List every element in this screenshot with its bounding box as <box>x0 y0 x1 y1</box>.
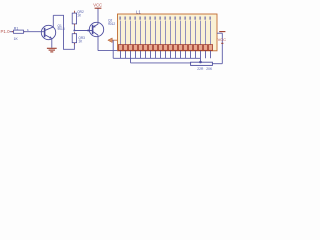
svg-text:VCC: VCC <box>218 37 227 42</box>
svg-text:9012: 9012 <box>108 22 115 26</box>
svg-text:VCC: VCC <box>93 3 102 8</box>
svg-text:P1.0: P1.0 <box>1 29 11 34</box>
svg-text:20K: 20K <box>206 67 213 71</box>
svg-text:R1: R1 <box>14 27 19 31</box>
svg-text:22R: 22R <box>197 67 204 71</box>
svg-text:L1: L1 <box>136 9 141 14</box>
svg-text:1K: 1K <box>14 37 19 41</box>
